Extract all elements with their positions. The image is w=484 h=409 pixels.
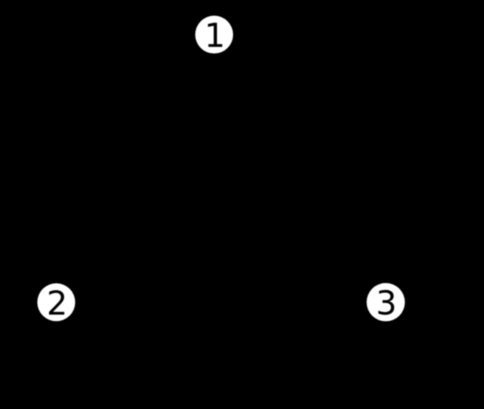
node 3	[367, 283, 405, 321]
wire: edge 2-3	[77, 301, 364, 303]
wire: edge 1-2	[67, 53, 203, 284]
node 1	[195, 16, 233, 54]
node 2	[37, 283, 75, 321]
wire: edge 1-3	[225, 52, 374, 285]
